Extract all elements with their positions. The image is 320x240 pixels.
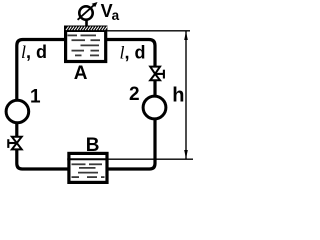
svg-text:l, d: l, d: [120, 43, 146, 63]
vacuum gauge Va: [79, 6, 92, 19]
vacuum gauge needle arrow: [78, 5, 95, 20]
svg-text:A: A: [74, 63, 88, 84]
node: lower liquid-level reference line: [108, 158, 193, 160]
svg-text:1: 1: [30, 87, 41, 108]
svg-text:h: h: [172, 84, 184, 106]
pump 1: [6, 100, 29, 123]
svg-text:a: a: [112, 8, 120, 23]
wire: suction pipe from tank A left side down to pump 1: [17, 40, 64, 100]
dimension line h: [185, 32, 187, 159]
tank A liquid dashes: [68, 35, 101, 55]
node: upper liquid-level reference line: [107, 30, 190, 32]
tank B: [67, 153, 107, 182]
valve V1 (below pump 1, handle to the left): [8, 137, 21, 150]
svg-text:l, d: l, d: [21, 42, 47, 62]
tank B liquid dashes: [72, 164, 105, 177]
wire: pipe from tank A right side down to valve V2: [106, 40, 155, 68]
valve V2 (above pump 2, handle to the right): [150, 67, 164, 81]
wire: pipe from pump 2 to tank B right side: [107, 120, 155, 170]
tank B liquid surface line: [67, 158, 106, 160]
svg-text:B: B: [86, 135, 100, 156]
wire: pipe between valve V2 and pump 2: [153, 81, 156, 97]
tank A hatched lid: [64, 26, 107, 32]
tank A: [64, 26, 107, 62]
vacuum gauge Va stem: [85, 20, 88, 27]
wire: pipe from valve V1 to tank B left side: [17, 149, 68, 170]
wire: pipe between pump 1 and valve V1: [15, 123, 18, 138]
svg-text:2: 2: [129, 84, 140, 105]
pump 2: [143, 96, 166, 119]
